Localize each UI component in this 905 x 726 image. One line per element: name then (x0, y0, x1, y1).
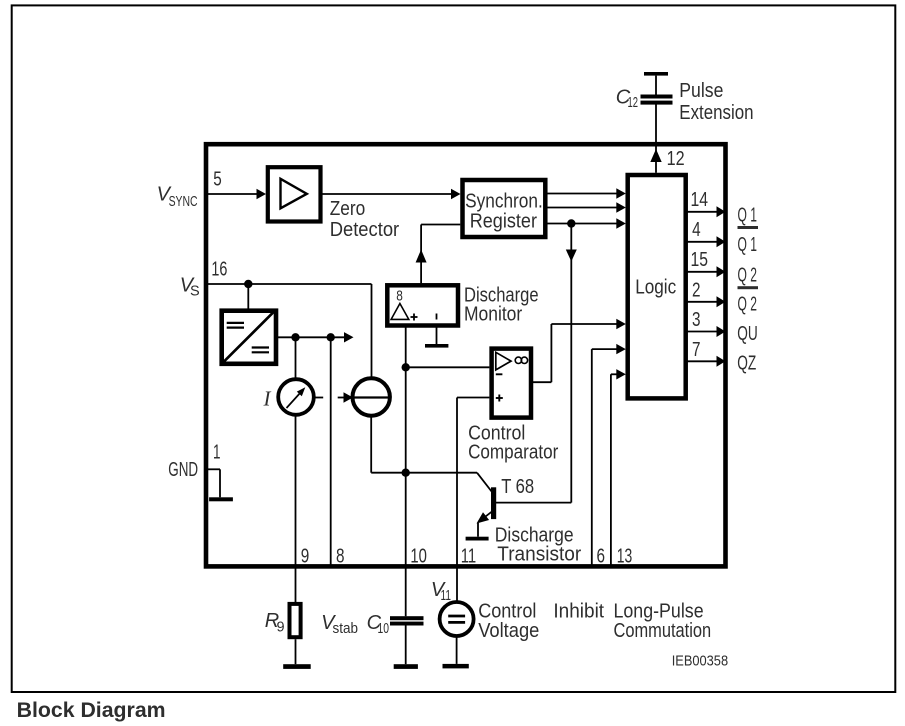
label Discharge Monitor (464, 284, 539, 325)
label Vstab (321, 612, 358, 637)
wire register to logic line 2 (548, 202, 626, 212)
wire comparator plus input / pin 11 (457, 398, 489, 603)
svg-text:4: 4 (692, 219, 701, 241)
ground V11 (443, 636, 469, 668)
svg-text:13: 13 (617, 546, 633, 568)
svg-text:16: 16 (211, 259, 227, 281)
node VSYNC label (157, 184, 198, 211)
label C10 (367, 612, 389, 637)
svg-text:Q 2: Q 2 (738, 294, 758, 316)
node Q 1 inverted label (738, 226, 759, 256)
svg-text:Extension: Extension (679, 102, 753, 124)
svg-text:6: 6 (597, 546, 606, 568)
label Control Comparator (468, 423, 558, 464)
svg-text:Inhibit: Inhibit (553, 601, 604, 623)
svg-text:12: 12 (667, 148, 685, 170)
svg-text:9: 9 (301, 546, 310, 568)
ground R9 (283, 639, 311, 669)
wire VS to summer (371, 284, 373, 379)
svg-text:QU: QU (737, 323, 758, 345)
block Discharge Monitor (387, 285, 458, 325)
wire regulator output rail (278, 332, 354, 342)
wire VS rail (208, 283, 372, 285)
voltage regulator U2 (222, 311, 276, 364)
node junction monitor output (402, 363, 410, 371)
svg-text:Comparator: Comparator (468, 441, 558, 463)
label R9 (265, 610, 285, 635)
svg-text:Q 1: Q 1 (738, 234, 758, 256)
node VS label (180, 275, 200, 300)
resistor R9 (290, 604, 301, 637)
svg-text:8: 8 (336, 546, 345, 568)
label C12 (616, 87, 638, 112)
svg-text:11: 11 (461, 546, 477, 568)
svg-text:stab: stab (333, 621, 359, 637)
svg-text:2: 2 (692, 279, 701, 301)
block Synchron. Register (463, 180, 546, 237)
svg-text:IEB00358: IEB00358 (672, 653, 728, 670)
IC boundary box (206, 144, 726, 566)
svg-text:Detector: Detector (330, 219, 400, 241)
transistor T68 (477, 473, 572, 524)
pin 14 output wire (687, 206, 726, 217)
wire monitor output down (405, 326, 407, 617)
svg-text:I: I (263, 387, 272, 411)
svg-text:Block Diagram: Block Diagram (17, 698, 166, 722)
wire summer down and right to transistor base (371, 416, 477, 473)
voltage source V11 (440, 602, 474, 636)
current source I (278, 379, 314, 415)
wire to comparator minus input (406, 366, 490, 368)
pin 3 output wire (687, 326, 726, 337)
label V11 (431, 579, 451, 604)
svg-text:Synchron.: Synchron. (465, 191, 543, 213)
svg-text:12: 12 (628, 95, 639, 111)
svg-text:1: 1 (213, 441, 221, 463)
svg-text:10: 10 (378, 621, 390, 637)
svg-text:S: S (190, 284, 200, 300)
svg-text:Logic: Logic (635, 277, 676, 299)
svg-text:SYNC: SYNC (169, 194, 198, 210)
svg-text:Q 2: Q 2 (738, 265, 758, 287)
op-amp Control Comparator (492, 349, 531, 418)
svg-text:Commutation: Commutation (614, 620, 712, 642)
block Logic (628, 175, 686, 398)
svg-text:GND: GND (168, 459, 198, 481)
label Control Voltage (478, 601, 539, 643)
wire register to logic line 3 (548, 218, 626, 228)
svg-text:Voltage: Voltage (478, 620, 539, 642)
svg-text:5: 5 (213, 169, 222, 191)
svg-text:Register: Register (470, 210, 538, 232)
svg-text:11: 11 (441, 588, 452, 604)
pin 4 output wire (687, 236, 726, 247)
wire pin 9 down to R9 (295, 415, 297, 602)
svg-text:7: 7 (692, 339, 701, 361)
label Discharge Transistor (495, 524, 582, 565)
wire register to logic line 1 (548, 188, 626, 198)
wire junction down to transistor collector (566, 224, 577, 503)
svg-text:14: 14 (691, 189, 709, 211)
node Q 2 inverted label (738, 286, 759, 316)
pin 7 output wire (687, 356, 726, 367)
svg-text:T 68: T 68 (501, 476, 534, 498)
node junction regulator out right (327, 333, 335, 341)
wire comparator output to logic (531, 319, 626, 382)
wire Zero Detector to Synchron. Register (321, 189, 461, 199)
wire pin 6 to logic (592, 344, 626, 567)
wire pin 13 to logic (611, 369, 626, 566)
svg-text:Transistor: Transistor (497, 543, 581, 565)
node junction regulator out left (291, 333, 299, 341)
ground emitter (466, 523, 489, 541)
svg-text:3: 3 (692, 309, 701, 331)
capacitor C10 (390, 616, 424, 625)
pin 15 output wire (687, 266, 726, 277)
wire current source to summer (314, 392, 353, 402)
svg-text:8: 8 (396, 288, 403, 305)
svg-text:Monitor: Monitor (464, 304, 522, 326)
node junction on register line 3 (567, 219, 575, 227)
pin 12 wire with up arrow (650, 105, 661, 173)
wire pin 8 (330, 337, 332, 566)
pin 2 output wire (687, 296, 726, 307)
svg-text:Pulse: Pulse (679, 80, 723, 102)
node junction at pin 10 rail (402, 469, 410, 477)
svg-text:Q 1: Q 1 (738, 204, 758, 226)
wire VSYNC to Zero Detector (208, 189, 266, 199)
op-amp U1 Zero Detector (268, 167, 400, 241)
svg-text:QZ: QZ (737, 353, 756, 375)
ground GND pin (208, 469, 233, 501)
wire to current source (295, 337, 297, 379)
svg-text:10: 10 (410, 546, 427, 568)
wire VS to regulator (247, 284, 249, 309)
wire C10 lower / ground C10 (394, 626, 418, 669)
capacitor C12 (641, 72, 673, 105)
svg-text:Zero: Zero (330, 198, 366, 220)
label Pulse Extension (679, 80, 753, 124)
node junction VS (244, 280, 252, 288)
label Long-Pulse Commutation (614, 601, 712, 643)
wire monitor to register with up arrow (416, 225, 461, 284)
summer node circle (353, 378, 390, 415)
ground monitor internal (425, 326, 448, 348)
svg-text:15: 15 (691, 249, 709, 271)
svg-text:9: 9 (277, 619, 285, 635)
